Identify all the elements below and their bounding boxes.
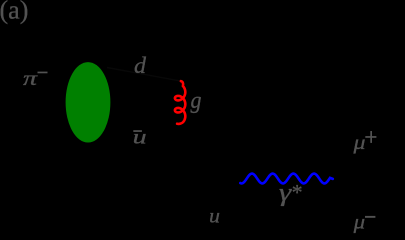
pion superscript minus — [38, 72, 48, 74]
quark line u (faint) — [170, 182, 240, 236]
quark line ubar (faint) — [106, 134, 240, 182]
svg-text:μ: μ — [352, 130, 365, 154]
svg-text:γ: γ — [279, 180, 293, 207]
quark line d (faint) — [107, 68, 182, 82]
svg-text:g: g — [191, 87, 202, 114]
muon line mu- (faint) — [333, 180, 405, 224]
photon gamma* (blue wave) — [240, 174, 332, 184]
plus sign — [365, 136, 376, 138]
svg-text:(a): (a) — [0, 0, 28, 24]
pion blob (green ellipse) — [66, 62, 111, 142]
gluon g (red coil) — [175, 81, 185, 124]
u-bar overline — [133, 130, 142, 132]
svg-text:u: u — [209, 204, 220, 228]
muon line mu+ (faint) — [333, 140, 405, 180]
minus sign — [365, 216, 375, 218]
svg-text:*: * — [292, 180, 303, 205]
svg-text:π: π — [23, 66, 38, 90]
svg-text:μ: μ — [353, 209, 366, 233]
svg-text:d: d — [134, 53, 147, 78]
svg-text:u: u — [133, 124, 147, 148]
